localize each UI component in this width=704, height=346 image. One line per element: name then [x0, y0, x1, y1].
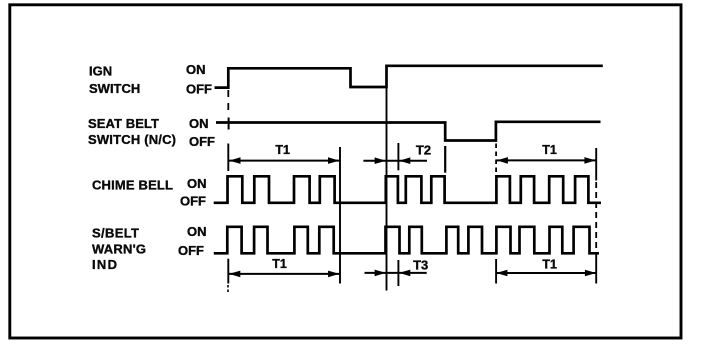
wire CHIME BELL waveform — [214, 176, 601, 203]
svg-text:SWITCH: SWITCH — [89, 81, 140, 96]
dimension T1 bottom-left — [229, 273, 340, 275]
node tick on seat belt ON line — [228, 118, 230, 130]
svg-text:OFF: OFF — [178, 243, 204, 258]
svg-text:ON: ON — [189, 116, 209, 131]
node tick at x=398.4 (T2/T3 right boundary) — [397, 143, 399, 170]
node dangling edge below seat belt fall x=445 — [444, 146, 446, 173]
node cursor line at x=228 (dashed below IGN) — [227, 90, 229, 116]
svg-text:ON: ON — [187, 176, 207, 191]
svg-text:S/BELT: S/BELT — [92, 226, 139, 241]
wire IGN switch waveform — [215, 66, 603, 88]
svg-text:OFF: OFF — [180, 194, 206, 209]
svg-text:T3: T3 — [413, 258, 428, 273]
node cursor line at x=496 (dashed) — [495, 144, 497, 176]
svg-text:SWITCH (N/C): SWITCH (N/C) — [88, 132, 176, 147]
svg-text:IGN: IGN — [89, 64, 112, 79]
dimension T1 top-left — [229, 160, 340, 162]
svg-text:ON: ON — [186, 62, 206, 77]
node cursor line at x=340 — [339, 147, 341, 284]
svg-text:OFF: OFF — [186, 82, 212, 97]
dimension T2 — [363, 160, 427, 162]
dimension T3 — [365, 272, 427, 274]
svg-text:SEAT BELT: SEAT BELT — [88, 116, 159, 131]
svg-text:T1: T1 — [272, 257, 287, 271]
svg-text:T1: T1 — [542, 143, 557, 157]
svg-text:WARN'G: WARN'G — [92, 242, 146, 257]
wire SEAT BELT switch waveform — [216, 122, 601, 141]
svg-text:CHIME BELL: CHIME BELL — [92, 178, 173, 193]
wire S/BELT WARN'G IND waveform — [214, 227, 599, 254]
dimension T1 top-right — [496, 159, 596, 161]
dimension T1 bottom-right — [496, 272, 597, 274]
node dashes below bottom-left tick — [227, 285, 229, 292]
svg-text:T1: T1 — [542, 258, 557, 272]
svg-text:ON: ON — [187, 224, 207, 239]
svg-text:OFF: OFF — [189, 134, 215, 149]
node cursor line at x=596 (dashed middle) — [595, 148, 597, 181]
svg-text:T2: T2 — [416, 143, 431, 158]
node cursor line at x=386.5 — [386, 88, 388, 291]
svg-text:T1: T1 — [275, 143, 290, 157]
